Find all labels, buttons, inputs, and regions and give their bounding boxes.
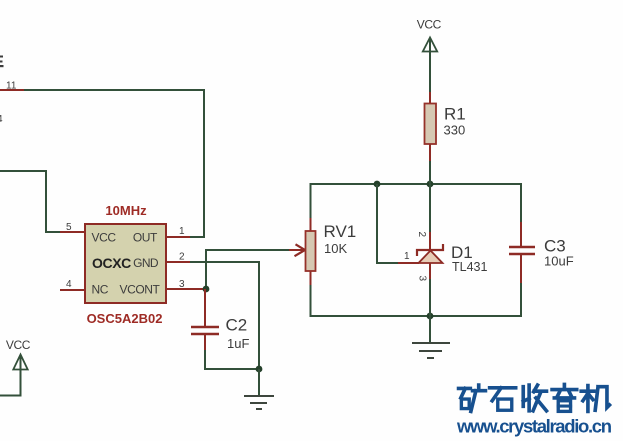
wire: VCONT node down to C2 <box>204 289 206 327</box>
svg-text:330: 330 <box>444 123 466 138</box>
pin 2 stub (GND) <box>166 261 192 263</box>
svg-text:10MHz: 10MHz <box>105 203 147 218</box>
top rail wire (RV1 / R1 / D1 / C3) <box>311 184 522 231</box>
svg-text:5: 5 <box>66 222 72 233</box>
pin stub (red) at left edge of top net <box>0 89 24 91</box>
svg-text:VCC: VCC <box>417 18 442 32</box>
wire: VCC feed to pin 5 from left edge <box>0 171 62 232</box>
node junction bottom rail / D1 anode <box>427 313 434 320</box>
potentiometer RV1 body <box>306 231 316 271</box>
char yin <box>552 385 577 412</box>
svg-text:3: 3 <box>417 276 428 282</box>
node junction at ground of C2 <box>256 366 263 373</box>
wire: GND net to ground rail <box>190 262 259 369</box>
R1 upper lead red <box>429 92 431 104</box>
watermark Chinese logo (vector strokes) <box>459 385 610 412</box>
D1 ref pin stub <box>398 262 419 264</box>
svg-text:2: 2 <box>179 252 185 263</box>
svg-text:OCXC: OCXC <box>92 255 131 271</box>
svg-text:3: 3 <box>179 279 185 290</box>
wire: R1 to rail <box>429 161 431 184</box>
svg-text:1: 1 <box>179 226 185 237</box>
capacitor C3 plates <box>509 246 535 248</box>
ground symbol (main) <box>412 343 450 358</box>
svg-text:OUT: OUT <box>133 231 158 245</box>
zener D1 cathode bar <box>417 244 443 256</box>
svg-text:OSC5A2B02: OSC5A2B02 <box>87 311 163 326</box>
resistor R1 body <box>425 104 437 145</box>
svg-text:R1: R1 <box>444 105 466 124</box>
wire: C2 bottom to ground node <box>205 350 259 369</box>
svg-text:10uF: 10uF <box>544 254 574 269</box>
oscillator OCXC body <box>85 224 166 303</box>
svg-text:RV1: RV1 <box>324 222 357 241</box>
svg-text:4: 4 <box>66 279 72 290</box>
wire: VCONT node up to wiper line <box>206 250 296 289</box>
svg-text:VCC: VCC <box>6 338 31 352</box>
RV1 upper lead red <box>310 218 312 231</box>
svg-text:GND: GND <box>133 256 159 270</box>
zener D1 triangle <box>419 251 443 264</box>
pin 5 stub <box>60 231 86 233</box>
capacitor C3 upper lead red <box>520 222 522 247</box>
char shi <box>490 388 516 410</box>
capacitor C2 plates <box>191 326 219 328</box>
wire: R1 bottom to D1 cathode <box>429 184 431 234</box>
node junction rail / D1 ref <box>374 181 381 188</box>
node junction rail / R1 <box>427 181 434 188</box>
wire: D1 reference from top rail <box>377 184 400 263</box>
node junction at pin3 / C2 <box>203 286 210 293</box>
bottom rail wire <box>311 271 522 316</box>
D1 anode lead red <box>429 263 431 281</box>
net label E (clipped at left edge) <box>0 56 4 68</box>
svg-text:2: 2 <box>416 232 427 238</box>
D1 cathode lead red <box>429 232 431 250</box>
RV1 lower lead red <box>310 271 312 285</box>
potentiometer RV1 wiper arrow <box>289 249 305 251</box>
pin 4 stub (NC) <box>60 289 86 291</box>
svg-text:TL431: TL431 <box>452 260 487 274</box>
wire: VCC to R1 <box>429 39 431 95</box>
char kuang <box>459 385 486 411</box>
svg-text:www.crystalradio.cn: www.crystalradio.cn <box>456 416 612 437</box>
wire: VCC arrow to left edge <box>0 356 21 396</box>
wire: top net from left edge to OUT vertical <box>0 90 204 237</box>
ground symbol (C2 net) <box>244 396 274 409</box>
char shou <box>523 385 546 411</box>
C3 lower lead red <box>520 254 522 283</box>
svg-text:10K: 10K <box>324 241 347 256</box>
wire: D1 anode to bottom rail <box>429 279 431 316</box>
char ji <box>581 386 609 412</box>
pin 3 stub (VCONT) <box>166 288 206 290</box>
pin 1 stub (OUT) <box>166 236 192 238</box>
svg-text:VCONT: VCONT <box>119 283 160 297</box>
wire: stem to ground symbol (C2) <box>258 369 260 396</box>
svg-text:1uF: 1uF <box>227 336 249 351</box>
svg-text:1: 1 <box>404 251 410 262</box>
svg-text:NC: NC <box>92 283 109 297</box>
wire: OUT stub to vertical <box>190 236 205 238</box>
svg-text:VCC: VCC <box>92 231 117 245</box>
svg-text:C2: C2 <box>226 316 248 335</box>
wire: stem to ground symbol (main) <box>429 316 431 343</box>
svg-text:4: 4 <box>0 114 3 125</box>
C2 lower lead <box>204 334 206 352</box>
R1 lower lead red <box>429 144 431 163</box>
